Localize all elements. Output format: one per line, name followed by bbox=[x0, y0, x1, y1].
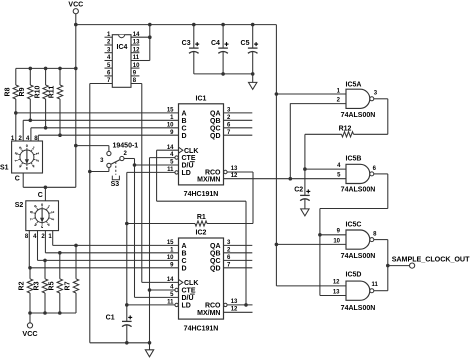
svg-text:C: C bbox=[182, 258, 187, 265]
svg-text:B: B bbox=[182, 118, 187, 125]
svg-text:R8: R8 bbox=[5, 87, 12, 96]
svg-text:QC: QC bbox=[210, 125, 221, 132]
svg-text:C: C bbox=[38, 192, 43, 199]
svg-text:13: 13 bbox=[231, 166, 238, 172]
svg-text:IC1: IC1 bbox=[196, 95, 207, 102]
svg-text:C: C bbox=[15, 175, 20, 182]
svg-text:QD: QD bbox=[210, 265, 221, 272]
svg-text:10: 10 bbox=[333, 239, 340, 245]
svg-text:10: 10 bbox=[133, 63, 140, 69]
svg-text:74ALS00N: 74ALS00N bbox=[341, 112, 376, 119]
svg-text:S2: S2 bbox=[15, 202, 24, 209]
svg-text:R5: R5 bbox=[49, 281, 56, 290]
svg-text:14: 14 bbox=[167, 277, 174, 283]
svg-text:D: D bbox=[182, 265, 187, 272]
svg-text:14: 14 bbox=[167, 145, 174, 151]
svg-text:11: 11 bbox=[167, 300, 174, 306]
svg-text:A: A bbox=[182, 243, 187, 250]
svg-text:B: B bbox=[182, 250, 187, 257]
svg-text:QB: QB bbox=[210, 118, 221, 125]
svg-text:IC4: IC4 bbox=[117, 44, 128, 51]
svg-text:QD: QD bbox=[210, 133, 221, 140]
svg-text:IC5A: IC5A bbox=[346, 81, 362, 88]
svg-text:C2: C2 bbox=[294, 186, 303, 193]
svg-text:IC5D: IC5D bbox=[346, 272, 362, 279]
svg-text:13: 13 bbox=[133, 40, 140, 46]
svg-text:19450-1: 19450-1 bbox=[113, 143, 139, 150]
svg-text:12: 12 bbox=[133, 47, 140, 53]
svg-text:12: 12 bbox=[231, 173, 238, 179]
svg-text:15: 15 bbox=[167, 240, 174, 246]
svg-text:R2: R2 bbox=[19, 281, 26, 290]
svg-text:IC5C: IC5C bbox=[346, 221, 362, 228]
svg-text:LD: LD bbox=[182, 303, 191, 310]
svg-text:D/U: D/U bbox=[182, 163, 194, 170]
svg-text:SAMPLE_CLOCK_OUT: SAMPLE_CLOCK_OUT bbox=[392, 254, 470, 263]
svg-text:13: 13 bbox=[231, 299, 238, 305]
svg-text:QC: QC bbox=[210, 258, 221, 265]
svg-text:74ALS00N: 74ALS00N bbox=[341, 253, 376, 260]
svg-text:MX/MN: MX/MN bbox=[197, 310, 220, 317]
svg-text:QA: QA bbox=[210, 243, 221, 250]
svg-text:S3: S3 bbox=[111, 181, 120, 188]
svg-text:S1: S1 bbox=[0, 165, 9, 172]
svg-text:A: A bbox=[182, 111, 187, 118]
svg-text:MX/MN: MX/MN bbox=[197, 176, 220, 183]
svg-text:IC5B: IC5B bbox=[346, 155, 362, 162]
svg-text:C5: C5 bbox=[241, 40, 250, 47]
svg-text:R12: R12 bbox=[339, 125, 352, 132]
svg-text:74ALS00N: 74ALS00N bbox=[341, 305, 376, 312]
svg-text:12: 12 bbox=[333, 279, 340, 285]
svg-text:R3: R3 bbox=[34, 281, 41, 290]
svg-text:14: 14 bbox=[133, 32, 140, 38]
svg-text:R11: R11 bbox=[49, 86, 56, 99]
svg-text:C4: C4 bbox=[211, 40, 220, 47]
svg-text:11: 11 bbox=[133, 55, 140, 61]
svg-text:13: 13 bbox=[333, 289, 340, 295]
svg-text:D/U: D/U bbox=[182, 295, 194, 302]
svg-text:74HC191N: 74HC191N bbox=[184, 191, 219, 198]
svg-text:CTE: CTE bbox=[182, 288, 196, 295]
svg-text:LD: LD bbox=[182, 170, 191, 177]
svg-text:74ALS00N: 74ALS00N bbox=[341, 187, 376, 194]
svg-text:CTE: CTE bbox=[182, 155, 196, 162]
svg-text:VCC: VCC bbox=[22, 329, 37, 338]
svg-text:R9: R9 bbox=[19, 87, 26, 96]
svg-text:C: C bbox=[182, 125, 187, 132]
svg-text:CLK: CLK bbox=[184, 280, 198, 287]
svg-text:RCO: RCO bbox=[205, 303, 221, 310]
svg-text:VCC: VCC bbox=[68, 2, 83, 9]
svg-text:10: 10 bbox=[167, 255, 174, 261]
svg-text:10: 10 bbox=[167, 122, 174, 128]
svg-text:QA: QA bbox=[210, 111, 221, 118]
svg-text:C1: C1 bbox=[106, 315, 115, 322]
svg-text:C3: C3 bbox=[182, 40, 191, 47]
svg-text:D: D bbox=[182, 133, 187, 140]
svg-text:R1: R1 bbox=[197, 214, 206, 221]
svg-text:R10: R10 bbox=[34, 85, 41, 98]
svg-text:CLK: CLK bbox=[184, 148, 198, 155]
svg-text:QB: QB bbox=[210, 250, 221, 257]
svg-text:IC2: IC2 bbox=[196, 230, 207, 237]
svg-text:R7: R7 bbox=[65, 281, 72, 290]
svg-text:11: 11 bbox=[167, 167, 174, 173]
svg-text:74HC191N: 74HC191N bbox=[184, 325, 219, 332]
svg-text:12: 12 bbox=[231, 307, 238, 313]
svg-text:15: 15 bbox=[167, 108, 174, 114]
svg-text:11: 11 bbox=[372, 282, 379, 288]
